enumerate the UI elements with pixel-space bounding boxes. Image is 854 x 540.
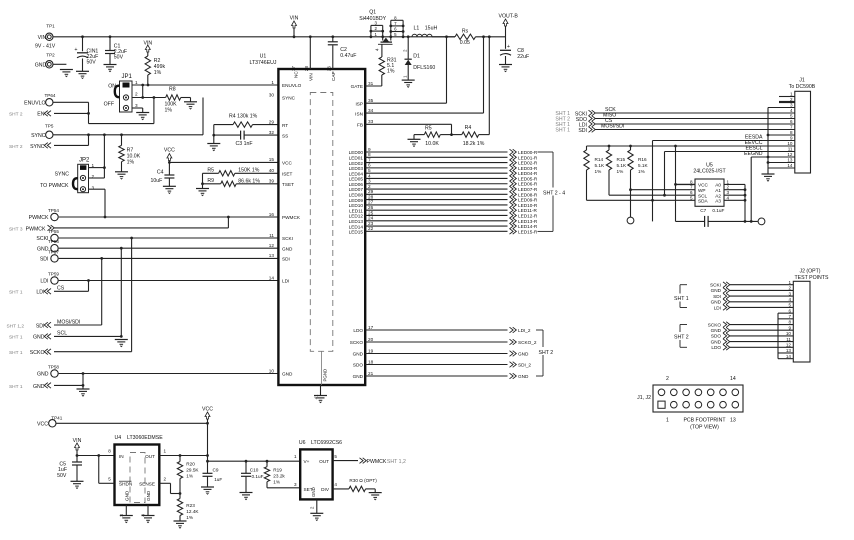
svg-text:33: 33 [368, 119, 374, 124]
inductor L1 [412, 26, 437, 37]
wires J2 nc pins bus [778, 313, 793, 359]
svg-text:GND: GND [711, 328, 722, 333]
wire EEGND net [744, 151, 795, 157]
svg-text:LED04-R: LED04-R [518, 171, 538, 176]
svg-text:PWMCK: PWMCK [29, 215, 49, 221]
svg-text:LED11: LED11 [349, 208, 363, 213]
svg-text:32: 32 [269, 130, 275, 135]
svg-text:R5: R5 [207, 167, 214, 173]
ground R6 [184, 102, 197, 109]
ground C4 [163, 186, 176, 193]
svg-text:J2 (OPT): J2 (OPT) [800, 269, 821, 275]
connector J1 To DC590B [787, 78, 815, 174]
svg-text:R9: R9 [207, 178, 214, 184]
svg-text:14: 14 [269, 275, 275, 280]
svg-text:2: 2 [666, 376, 669, 382]
svg-text:RT: RT [282, 123, 288, 128]
svg-text:2: 2 [788, 286, 791, 291]
svg-text:SYNC: SYNC [31, 133, 46, 139]
dashed internal block U1 [310, 93, 333, 386]
svg-text:50V: 50V [87, 60, 97, 66]
bracket SHT 2 [536, 330, 554, 376]
svg-text:5: 5 [368, 168, 371, 173]
svg-text:LED12: LED12 [349, 214, 364, 219]
svg-text:SHT 1: SHT 1 [9, 384, 23, 390]
svg-text:CAP: CAP [331, 71, 336, 81]
svg-text:26: 26 [327, 66, 332, 72]
svg-text:GND: GND [711, 339, 722, 344]
svg-text:3: 3 [294, 482, 297, 487]
svg-text:VOUT-B: VOUT-B [499, 14, 519, 20]
svg-text:3: 3 [368, 179, 371, 184]
svg-text:SHT 2: SHT 2 [539, 350, 554, 356]
svg-text:2: 2 [727, 185, 730, 190]
svg-text:18.2k 1%: 18.2k 1% [463, 141, 485, 147]
svg-text:GND: GND [311, 487, 316, 497]
svg-text:1%: 1% [154, 70, 162, 76]
svg-text:R16: R16 [638, 157, 647, 162]
wire EESCL net [665, 146, 795, 152]
svg-text:PWMCK: PWMCK [282, 215, 301, 220]
wire PWMCK sht3 net [54, 217, 228, 228]
test point TP54 PWMCK [29, 208, 60, 221]
svg-text:18: 18 [368, 359, 374, 364]
svg-text:8: 8 [690, 179, 693, 184]
test point TP59 LDI [40, 272, 59, 285]
wire JP1 pin2 row [132, 96, 166, 99]
svg-text:LED01-R: LED01-R [518, 155, 538, 160]
svg-text:GND: GND [35, 63, 47, 69]
svg-text:15: 15 [269, 157, 275, 162]
sheet port GND bottom [9, 383, 51, 390]
svg-text:35: 35 [368, 98, 374, 103]
wire SDI chevron net [54, 258, 102, 325]
svg-text:150K 1%: 150K 1% [238, 168, 259, 174]
wire SCL row [609, 152, 695, 197]
svg-text:LED00-R: LED00-R [518, 150, 538, 155]
wire FB net [365, 124, 453, 136]
svg-text:GND: GND [353, 352, 364, 357]
resistor R2 [145, 56, 165, 85]
svg-text:C10: C10 [250, 467, 259, 472]
svg-text:LT3746EUJ: LT3746EUJ [249, 60, 276, 66]
wire ISN net [365, 37, 483, 113]
svg-text:11: 11 [788, 147, 793, 152]
ground PGND [314, 396, 327, 403]
svg-text:LED15: LED15 [349, 230, 364, 235]
svg-text:R15: R15 [617, 157, 626, 162]
svg-text:GND: GND [146, 490, 151, 501]
svg-text:1uF: 1uF [214, 477, 222, 482]
jumper JP1 [104, 74, 138, 112]
power flag VIN bottom [73, 438, 82, 462]
ground C8 [499, 65, 512, 72]
resistor R20 [177, 456, 199, 494]
transistor Q1 Si4401BDY [359, 10, 404, 52]
svg-text:SCKI: SCKI [710, 283, 721, 288]
svg-text:TP59: TP59 [48, 272, 59, 277]
wire LDI chevron net [54, 281, 89, 292]
svg-text:13: 13 [269, 253, 275, 258]
power flag VIN mid [290, 16, 299, 39]
bracket SHT 2-4 [538, 152, 566, 231]
resistor R14 [584, 146, 605, 200]
svg-text:LDI: LDI [714, 305, 721, 310]
svg-text:9: 9 [368, 147, 371, 152]
svg-text:LED14: LED14 [349, 224, 364, 229]
svg-text:LED06-R: LED06-R [518, 182, 538, 187]
ground J1 [762, 174, 775, 181]
svg-text:GND: GND [282, 246, 293, 251]
ground U4 gnd3 [120, 516, 133, 523]
svg-text:LDO: LDO [711, 345, 721, 350]
sheet ports LED00-R..LED15-R [510, 149, 538, 234]
svg-text:LED03: LED03 [349, 166, 364, 171]
capacitor C1 [105, 35, 127, 64]
pin VIN U1 [304, 35, 314, 81]
svg-text:13: 13 [730, 418, 736, 424]
wire VCC out node [206, 456, 300, 474]
svg-text:R20: R20 [186, 462, 195, 467]
svg-text:LED15-R: LED15-R [518, 229, 538, 234]
wire GND row (TP58) [59, 372, 279, 375]
svg-text:10uF: 10uF [150, 178, 162, 184]
svg-text:C7: C7 [700, 208, 706, 213]
svg-text:JP1: JP1 [122, 74, 133, 80]
svg-text:LED10: LED10 [349, 203, 364, 208]
svg-text:TP1: TP1 [46, 24, 55, 29]
svg-text:LED09-R: LED09-R [518, 198, 538, 203]
ground RT/SS [207, 144, 220, 151]
svg-text:4: 4 [727, 195, 730, 200]
svg-text:ISET: ISET [282, 172, 293, 177]
svg-text:20: 20 [368, 337, 374, 342]
svg-text:VIN: VIN [38, 35, 47, 41]
test point TP2 GND [35, 52, 67, 68]
svg-text:2: 2 [368, 184, 371, 189]
svg-text:LDI: LDI [282, 279, 289, 284]
resistor R9 86.6k (TSET) [203, 178, 279, 187]
svg-text:GND: GND [124, 490, 129, 501]
resistor R23 [177, 494, 199, 522]
svg-text:50V: 50V [57, 473, 67, 479]
svg-text:1: 1 [271, 80, 274, 85]
svg-text:GND: GND [37, 246, 49, 252]
resistor R4 130k [214, 114, 279, 128]
ground ISET/TSET [196, 189, 209, 196]
test point TP41 VCC [37, 416, 63, 428]
wires J2 top group [710, 282, 793, 310]
svg-text:TP57: TP57 [48, 249, 59, 254]
pin labels U1 left [269, 80, 302, 377]
svg-text:GND: GND [711, 300, 722, 305]
resistor R30 (OPT) [349, 478, 377, 492]
svg-text:11: 11 [786, 337, 791, 342]
svg-text:TEST POINTS: TEST POINTS [795, 275, 829, 281]
capacitor C4 [150, 169, 174, 186]
svg-text:LED01: LED01 [349, 155, 364, 160]
svg-text:Q1: Q1 [369, 10, 376, 16]
svg-text:SYNC: SYNC [55, 172, 70, 178]
wire JP1 pin1 to ENUVLO pin [132, 84, 278, 87]
wire PWMCK row [59, 216, 279, 219]
test point TP58 GND [37, 365, 59, 378]
op-amp U1 LT3746EUJ body [249, 54, 365, 386]
svg-text:LT3060EDMSE: LT3060EDMSE [127, 435, 163, 441]
svg-text:Si4401BDY: Si4401BDY [359, 16, 386, 22]
svg-text:SCKO: SCKO [708, 322, 722, 327]
sheet port SDO to J1 [555, 116, 595, 123]
svg-text:LED07-R: LED07-R [518, 187, 538, 192]
svg-text:24: 24 [368, 216, 374, 221]
sheet port SCKI to J1 [555, 110, 595, 117]
svg-text:17: 17 [368, 325, 374, 330]
svg-text:LDI: LDI [40, 279, 48, 285]
svg-text:TP55: TP55 [48, 229, 59, 234]
svg-text:A3: A3 [715, 199, 721, 204]
svg-text:7: 7 [690, 185, 693, 190]
wire SCK net [595, 107, 795, 113]
wire MOSI/SDI net [595, 124, 795, 130]
diode D1 DFLS160 [403, 35, 436, 80]
svg-text:TP56: TP56 [48, 239, 59, 244]
svg-text:5.1K: 5.1K [638, 163, 649, 168]
wire SCKO chevron net [54, 238, 132, 352]
svg-text:SCKI: SCKI [36, 236, 48, 242]
svg-text:LED06: LED06 [349, 182, 364, 187]
svg-text:TP5: TP5 [45, 123, 54, 128]
svg-text:LED07: LED07 [349, 187, 364, 192]
pin CAP U1 [327, 35, 337, 81]
capacitor C10 [241, 461, 264, 492]
svg-text:12: 12 [786, 342, 792, 347]
svg-text:GND: GND [353, 374, 364, 379]
capacitor C3 [214, 131, 279, 147]
svg-text:40: 40 [269, 168, 275, 173]
svg-text:11: 11 [269, 233, 274, 238]
svg-text:24LC025-I/ST: 24LC025-I/ST [693, 169, 726, 175]
test point TP5 SYNC [31, 123, 54, 139]
svg-text:PWMCK: PWMCK [367, 459, 387, 465]
svg-text:27: 27 [291, 65, 296, 70]
power flag VCC (C4) [164, 147, 175, 175]
svg-text:VCC: VCC [164, 147, 175, 153]
svg-text:GND: GND [282, 372, 293, 377]
svg-text:TO PWMCK: TO PWMCK [40, 183, 69, 189]
svg-text:SHT 3: SHT 3 [9, 226, 23, 232]
svg-text:SDI: SDI [40, 257, 49, 263]
resistor R8 100K [165, 87, 191, 114]
ground FB divider [408, 135, 421, 147]
svg-text:J1: J1 [799, 78, 805, 84]
svg-text:V+: V+ [304, 459, 310, 464]
connector J2 test points [786, 269, 829, 363]
svg-text:LDI: LDI [36, 290, 44, 296]
test point TP64 ENUVLO [24, 93, 56, 106]
svg-text:A1: A1 [715, 188, 721, 193]
wire JP2 pin1 pin2 to SYNC [89, 135, 106, 178]
resistor R4fb 18.2k [452, 37, 490, 147]
svg-text:25: 25 [368, 210, 374, 215]
svg-text:2: 2 [164, 476, 167, 481]
svg-text:SHT 1: SHT 1 [9, 335, 23, 341]
ground C10 [240, 493, 253, 500]
svg-text:TP54: TP54 [48, 208, 59, 213]
svg-text:1: 1 [164, 449, 167, 454]
svg-text:LED08-R: LED08-R [518, 192, 538, 197]
wire MISO net [595, 113, 795, 119]
capacitor C7 [676, 157, 758, 227]
test point TP55 SCKI [36, 229, 59, 242]
svg-text:1: 1 [294, 454, 297, 459]
svg-text:1%: 1% [387, 69, 395, 75]
resistor R16 [628, 146, 649, 190]
wire CS net [595, 118, 795, 124]
svg-text:50V: 50V [114, 55, 124, 61]
svg-text:13: 13 [786, 348, 792, 353]
svg-text:C3 1nF: C3 1nF [236, 141, 253, 147]
svg-text:SHT 1: SHT 1 [555, 128, 570, 134]
svg-text:14: 14 [786, 354, 792, 359]
wire gate net [381, 47, 383, 57]
wire EN net [54, 98, 154, 124]
svg-text:TP64: TP64 [45, 93, 56, 98]
bracket SHT 1 J2 [672, 285, 689, 308]
svg-text:28: 28 [304, 66, 309, 72]
wire SHDN net [99, 456, 115, 484]
svg-text:SHT 1: SHT 1 [9, 290, 23, 296]
svg-text:1%: 1% [127, 160, 135, 166]
resistor Rs 0.05 [455, 29, 476, 47]
svg-text:R8: R8 [169, 87, 176, 93]
svg-text:1: 1 [790, 92, 793, 97]
svg-text:R30 Ω (OPT): R30 Ω (OPT) [349, 478, 377, 483]
wire ISET/TSET ground [201, 173, 204, 188]
wire JP1 short 1-2 [141, 85, 144, 99]
svg-text:JP2: JP2 [79, 158, 90, 164]
ground C9 [201, 487, 214, 494]
svg-text:A0: A0 [715, 183, 721, 188]
svg-text:1%: 1% [186, 474, 193, 479]
svg-text:5.1K: 5.1K [595, 163, 606, 168]
svg-text:LED10-R: LED10-R [518, 203, 538, 208]
svg-text:SCKO_2: SCKO_2 [518, 340, 537, 345]
svg-text:OUT: OUT [145, 454, 155, 459]
svg-text:29.5K: 29.5K [186, 468, 199, 473]
svg-text:9: 9 [790, 136, 793, 141]
ground R30 [369, 493, 382, 500]
svg-text:12.4K: 12.4K [186, 509, 199, 514]
pin 1 stub J1 [779, 96, 795, 98]
sheet port PWMCK sht3 [9, 225, 54, 232]
wire VCC to pin [168, 161, 278, 164]
svg-text:10.0K: 10.0K [425, 141, 439, 147]
wire A0-A3 bus [724, 184, 746, 222]
ground TP58 net [77, 389, 90, 396]
ground D1 [402, 80, 415, 87]
svg-text:+: + [507, 44, 510, 50]
svg-text:1%: 1% [617, 169, 624, 174]
svg-text:GND: GND [518, 352, 529, 357]
svg-text:GND: GND [33, 384, 45, 390]
svg-text:4: 4 [790, 108, 793, 113]
svg-text:15uH: 15uH [425, 26, 438, 32]
sheet port SYNC [9, 143, 51, 150]
wire JP1 pin3 to ground [132, 108, 143, 113]
wire SDA row [587, 141, 696, 222]
svg-text:1: 1 [788, 280, 791, 285]
svg-text:GND: GND [518, 374, 529, 379]
svg-text:TSET: TSET [282, 182, 294, 187]
svg-text:OUT: OUT [319, 459, 329, 464]
svg-text:29: 29 [269, 119, 275, 124]
wire SYNC row [54, 98, 204, 137]
capacitor C8 [500, 44, 529, 65]
svg-text:SYNC: SYNC [30, 144, 45, 150]
svg-text:2: 2 [310, 506, 315, 509]
svg-text:1%: 1% [638, 169, 645, 174]
svg-text:LED02-R: LED02-R [518, 161, 538, 166]
wire VIN node to U4 IN [76, 454, 115, 457]
svg-text:0.1uF: 0.1uF [712, 208, 724, 213]
wire SDI row [59, 257, 279, 260]
svg-text:LED13: LED13 [349, 219, 364, 224]
svg-text:28: 28 [368, 194, 374, 199]
wire JP2 pin3 to PWMCK row [89, 189, 107, 218]
svg-text:LED14-R: LED14-R [518, 224, 538, 229]
wire DIV to R30 [333, 488, 349, 490]
svg-text:3: 3 [135, 103, 138, 108]
resistor R19 [264, 461, 300, 488]
svg-text:SDI_2: SDI_2 [518, 363, 531, 368]
wire J1 ground bus [767, 108, 795, 175]
svg-text:5: 5 [334, 454, 337, 459]
svg-text:U1: U1 [260, 54, 267, 60]
svg-text:86.6k 1%: 86.6k 1% [238, 178, 260, 184]
svg-text:SHT 1: SHT 1 [9, 350, 23, 356]
wire OUT to PWMCK port [333, 460, 358, 462]
svg-text:1: 1 [666, 418, 669, 424]
resistor R5fb 10.0K [414, 125, 452, 147]
svg-text:4: 4 [334, 482, 337, 487]
wires LDO/SCKO/GND/SDO/GND out [365, 330, 507, 376]
svg-text:GND: GND [711, 288, 722, 293]
svg-text:U4: U4 [115, 435, 122, 441]
svg-text:DFLS160: DFLS160 [413, 65, 435, 71]
svg-text:29: 29 [368, 189, 374, 194]
wire GND chevron net [54, 374, 84, 390]
svg-text:PCB FOOTPRINT: PCB FOOTPRINT [683, 418, 726, 424]
ground SCL row [115, 340, 128, 347]
svg-text:5: 5 [108, 476, 111, 481]
sheet port SCKO [9, 349, 51, 356]
pin 3 stub J1 [768, 107, 795, 109]
regulator U4 LT3060EDMSE [108, 435, 166, 505]
svg-text:0.1uF: 0.1uF [252, 474, 264, 479]
svg-text:OFF: OFF [104, 102, 114, 108]
svg-text:EN: EN [37, 112, 44, 118]
sheet port EN [9, 111, 51, 118]
svg-text:IN: IN [119, 454, 124, 459]
svg-text:ISN: ISN [355, 111, 363, 116]
svg-text:WP: WP [698, 188, 706, 193]
wire ISP net [365, 37, 446, 103]
svg-text:LED11-R: LED11-R [518, 208, 538, 213]
wire GND-SCL chevron net [54, 248, 123, 338]
svg-text:7: 7 [790, 125, 793, 130]
svg-text:19: 19 [368, 348, 374, 353]
svg-text:8: 8 [790, 130, 793, 135]
